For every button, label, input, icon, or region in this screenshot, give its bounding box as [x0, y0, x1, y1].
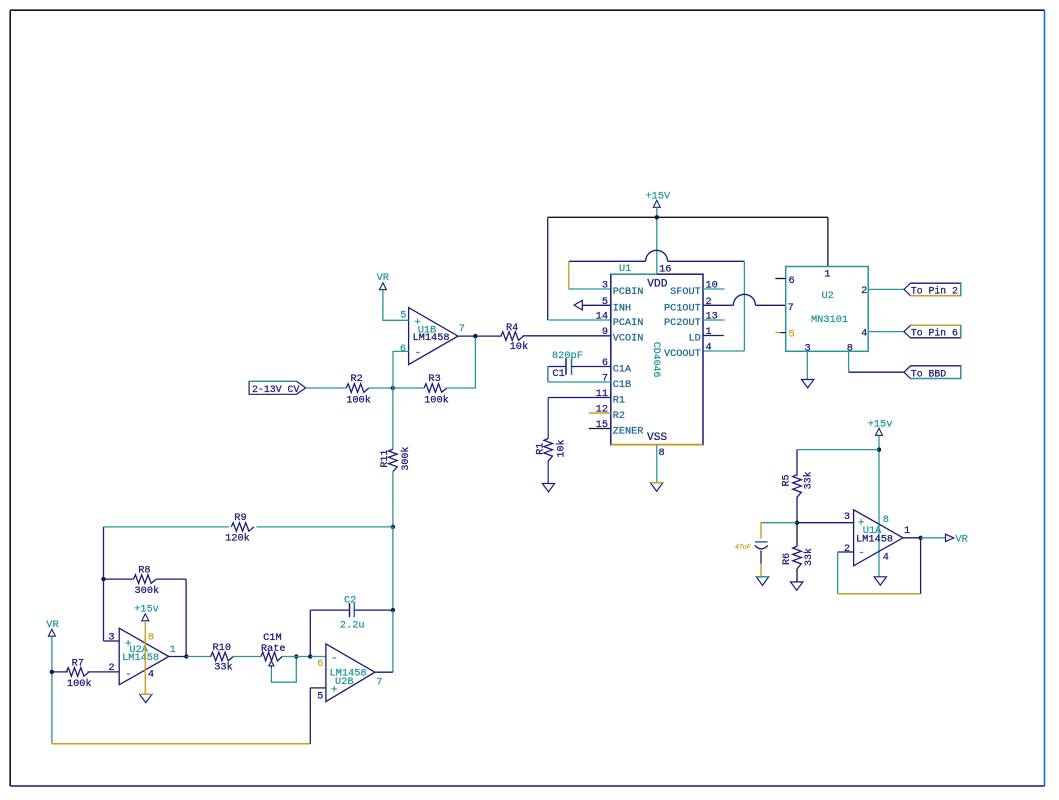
- U2A pin4 number: [148, 669, 154, 681]
- svg-text:VDD: VDD: [647, 278, 667, 290]
- wire R10 to C1M: [233, 656, 261, 658]
- VR out arrow: [946, 534, 954, 541]
- wire hop over +15V stem: [646, 250, 668, 261]
- node R8 left junction: [101, 577, 105, 581]
- wire PC1OUT right: [755, 304, 785, 306]
- svg-text:10k: 10k: [555, 439, 567, 457]
- U1 pin name PC1OUT: [664, 303, 701, 314]
- node C1M return: [294, 654, 298, 658]
- ground U1A pin4: [874, 577, 886, 585]
- op-amp U2A: [119, 628, 169, 685]
- svg-text:R11: R11: [380, 450, 391, 468]
- svg-text:+15V: +15V: [646, 191, 672, 203]
- wire PCAIN stub: [548, 319, 611, 321]
- label VSS: [647, 432, 667, 444]
- svg-text:16: 16: [659, 263, 671, 275]
- label R2 value 100k: [346, 395, 371, 407]
- label MN3101: [811, 314, 848, 326]
- wire rail to U2 pin1: [827, 217, 829, 266]
- U1 pin name PCAIN: [613, 318, 644, 329]
- svg-text:6: 6: [789, 275, 795, 287]
- U2 pin6 number: [789, 275, 795, 287]
- border frame top: [10, 9, 1044, 11]
- capacitor C1 plate right: [571, 358, 573, 375]
- wire PCBIN stub: [569, 288, 611, 290]
- svg-text:7: 7: [602, 373, 608, 385]
- capacitor 47uF curved plate: [755, 545, 768, 549]
- node C2 junction: [391, 608, 395, 612]
- U2 pin4 number: [861, 327, 867, 339]
- label U1B: [418, 325, 437, 337]
- capacitor 47uF top lead: [760, 523, 762, 539]
- resistor R1: [544, 439, 553, 462]
- label U1A: [863, 525, 882, 537]
- svg-text:-: -: [414, 345, 421, 359]
- wire R8 junction to pin3: [103, 579, 105, 641]
- wire C1 left lead: [548, 366, 566, 368]
- resistor R3: [424, 384, 447, 393]
- U1 pin 1 number: [706, 326, 712, 338]
- U1 pin 2 number: [706, 296, 712, 308]
- svg-text:5: 5: [317, 690, 323, 702]
- U1 pin name VCOOUT: [664, 349, 701, 360]
- U1 pin 5 number: [602, 296, 608, 308]
- wire U1A out: [921, 537, 946, 539]
- svg-text:47uF: 47uF: [735, 544, 751, 551]
- node R5 R6 junction: [795, 521, 799, 525]
- node U2A out: [184, 654, 188, 658]
- svg-text:3: 3: [844, 511, 850, 523]
- svg-text:C2: C2: [344, 595, 356, 607]
- wire R6 top: [796, 523, 798, 547]
- svg-text:SFOUT: SFOUT: [670, 287, 701, 298]
- U2 pin5 number: [789, 328, 795, 340]
- VR arrow left: [48, 629, 55, 636]
- capacitor 47uF top plate: [755, 541, 768, 543]
- node C2 left branch: [308, 654, 312, 658]
- svg-text:1: 1: [824, 268, 830, 280]
- U1 pin name LD: [688, 334, 700, 345]
- svg-text:33k: 33k: [214, 662, 233, 674]
- svg-text:VR: VR: [46, 619, 58, 631]
- svg-text:-: -: [331, 651, 338, 665]
- resistor R10: [211, 652, 234, 661]
- ic U2 body: [786, 267, 869, 352]
- wire C1M wiper return: [271, 657, 296, 683]
- U1A plus: [858, 517, 865, 529]
- svg-text:8: 8: [847, 342, 853, 354]
- op-amp U1A: [854, 510, 903, 566]
- svg-text:To BBD: To BBD: [911, 368, 946, 379]
- U2 pin3 number: [805, 342, 811, 354]
- power +15V arrow: [653, 200, 660, 207]
- U1A pin8 number: [883, 514, 889, 526]
- wire VCOOUT horizontal: [703, 350, 744, 352]
- U1 pin 3 number: [602, 280, 608, 292]
- svg-text:-: -: [125, 667, 132, 681]
- U2A pin3 number: [108, 632, 114, 644]
- svg-text:14: 14: [596, 311, 608, 323]
- wire R11 to R9: [392, 472, 394, 527]
- svg-text:PCAIN: PCAIN: [613, 318, 644, 329]
- label 820pF: [552, 350, 583, 362]
- U1 pin name INH: [613, 303, 631, 314]
- ic U1 body: [611, 274, 703, 445]
- U1 pin1 stub: [703, 335, 724, 337]
- U2B pin6 number: [317, 658, 323, 670]
- svg-text:300k: 300k: [400, 447, 412, 471]
- wire feedback horizontal right: [668, 260, 745, 262]
- wire gold bottom: [52, 743, 310, 745]
- svg-text:R4: R4: [506, 322, 518, 334]
- U1A pin1 number: [904, 525, 910, 537]
- svg-text:5: 5: [602, 296, 608, 308]
- wire R1 bottom: [547, 461, 549, 484]
- wire U2 pin8 vertical: [848, 351, 850, 372]
- wire R1 pin11: [548, 397, 611, 399]
- label C1M Rate: [261, 643, 286, 655]
- svg-text:4: 4: [861, 327, 867, 339]
- resistor R9: [231, 523, 254, 532]
- wire VR down: [51, 636, 53, 743]
- label R8: [138, 565, 150, 577]
- port 2-13V CV: [249, 381, 306, 395]
- power +15V label: [646, 191, 672, 203]
- pin 16 label: [659, 263, 671, 275]
- op-amp U1B: [409, 308, 458, 365]
- wire VR to pin5: [383, 290, 409, 321]
- label R3: [428, 373, 440, 385]
- svg-text:+15v: +15v: [134, 604, 159, 616]
- U1 pin 12 number: [596, 404, 608, 416]
- svg-text:VSS: VSS: [647, 432, 667, 444]
- potentiometer C1M: [261, 652, 282, 661]
- svg-text:8: 8: [148, 632, 154, 644]
- wire U2 pin8 horizontal: [849, 371, 904, 373]
- svg-text:Rate: Rate: [261, 643, 286, 655]
- U2 pin1 number: [824, 268, 830, 280]
- U1 pin 9 number: [602, 326, 608, 338]
- wire R6 bottom: [796, 569, 798, 582]
- svg-text:C1B: C1B: [613, 380, 631, 391]
- svg-text:ZENER: ZENER: [613, 427, 644, 438]
- capacitor 47uF bottom lead gold: [760, 564, 762, 577]
- U1 pin name VCOIN: [613, 334, 644, 345]
- U2 pin7 number: [788, 302, 794, 314]
- svg-text:R2: R2: [351, 373, 363, 385]
- wire C1 vertical: [547, 367, 549, 383]
- ground 47uF: [756, 577, 768, 585]
- wire pin6: [393, 351, 409, 388]
- svg-text:7: 7: [376, 677, 382, 689]
- label U2: [822, 290, 834, 302]
- wire R7 left: [52, 671, 68, 673]
- svg-text:6: 6: [400, 343, 406, 355]
- ground U2A: [140, 694, 152, 702]
- port To BBD: [904, 366, 961, 379]
- resistor R11: [389, 449, 398, 472]
- U2B pin5 number: [317, 690, 323, 702]
- label R9 value 120k: [225, 533, 250, 545]
- wire junction to R3: [393, 387, 424, 389]
- label C2: [344, 595, 356, 607]
- U2B output stub: [375, 671, 393, 673]
- op-amp U2B: [326, 644, 375, 702]
- U1 pin 6 number: [602, 357, 608, 369]
- label R5 value 33k: [802, 471, 814, 489]
- wire cap branch: [761, 522, 797, 524]
- svg-text:PC1OUT: PC1OUT: [664, 303, 701, 314]
- U2 pin2 number: [861, 285, 867, 297]
- svg-text:MN3101: MN3101: [811, 314, 848, 326]
- wire +15V rail: [548, 216, 828, 218]
- svg-text:100k: 100k: [67, 678, 92, 690]
- U1A pin4 number: [883, 552, 889, 564]
- svg-text:U2B: U2B: [335, 676, 354, 688]
- svg-text:LM1458: LM1458: [856, 534, 893, 546]
- resistor R7: [66, 668, 89, 677]
- svg-text:R10: R10: [213, 642, 232, 654]
- U2A pin2 number: [108, 662, 114, 674]
- svg-text:U1: U1: [619, 263, 631, 275]
- wire C1M to C2 node: [282, 656, 310, 658]
- wire C1B: [548, 381, 611, 383]
- U2B plus: [331, 685, 338, 697]
- border frame right: [1044, 10, 1046, 786]
- svg-text:LM1458: LM1458: [413, 332, 450, 344]
- U1 pin 13 number: [706, 311, 718, 323]
- wire VCOOUT vertical: [743, 261, 745, 351]
- svg-text:INH: INH: [613, 303, 631, 314]
- svg-text:300k: 300k: [135, 585, 160, 597]
- resistor R5: [793, 475, 802, 498]
- label U2B: [335, 676, 354, 688]
- wire R3 up corner: [447, 336, 476, 388]
- label +15v U1A: [868, 418, 893, 430]
- wire feedback horizontal left: [569, 260, 646, 262]
- wire PC1OUT left: [703, 304, 733, 306]
- wire U1 pin8: [656, 445, 658, 483]
- U1 pin name R2: [613, 411, 625, 422]
- label U2B LM1458: [330, 668, 367, 680]
- U2 pin6 stub: [775, 278, 785, 280]
- wire CV to R2: [306, 387, 347, 389]
- svg-text:7: 7: [788, 302, 794, 314]
- svg-text:R7: R7: [72, 658, 84, 670]
- label R5: [782, 474, 793, 486]
- svg-text:To Pin 6: To Pin 6: [911, 328, 958, 339]
- border frame bottom: [10, 785, 1044, 787]
- svg-text:8: 8: [883, 514, 889, 526]
- capacitor C2 plate right: [353, 603, 355, 617]
- svg-text:PC2OUT: PC2OUT: [664, 318, 701, 329]
- VR arrow U1B: [379, 283, 386, 290]
- wire +15v U1A down: [878, 436, 880, 577]
- wire out to R10: [186, 656, 211, 658]
- port To Pin 2: [904, 283, 961, 296]
- svg-text:120k: 120k: [225, 533, 250, 545]
- ground U2 pin3: [802, 380, 814, 388]
- U2B pin7 number: [376, 677, 382, 689]
- label R6: [782, 553, 793, 565]
- wire C2 up: [309, 610, 311, 656]
- resistor R8: [134, 575, 157, 584]
- U2B minus: [331, 651, 338, 665]
- label C1M: [263, 632, 282, 644]
- svg-text:2.2u: 2.2u: [340, 619, 365, 631]
- svg-text:+15v: +15v: [868, 418, 893, 430]
- label R7: [72, 658, 84, 670]
- U1 pin 7 number: [602, 373, 608, 385]
- svg-text:2: 2: [844, 543, 850, 555]
- U1B pin5 number: [400, 310, 406, 322]
- svg-text:100k: 100k: [346, 395, 371, 407]
- label C1: [552, 368, 564, 380]
- U1 pin name ZENER: [613, 427, 644, 438]
- svg-text:To Pin 2: To Pin 2: [911, 286, 958, 297]
- U1 pin name PC2OUT: [664, 318, 701, 329]
- port To Pin 6: [904, 325, 961, 338]
- label R10 value 33k: [214, 662, 233, 674]
- wire hop over VCOOUT vertical: [733, 294, 755, 305]
- svg-text:4: 4: [883, 552, 889, 564]
- label R4 value 10k: [510, 341, 529, 353]
- svg-text:R2: R2: [613, 411, 625, 422]
- svg-text:C1A: C1A: [613, 365, 632, 376]
- wire U2B pin5 stub: [310, 687, 326, 689]
- svg-text:R5: R5: [782, 474, 793, 486]
- svg-text:12: 12: [596, 404, 608, 416]
- wire C2 junction down: [392, 610, 394, 672]
- label VDD: [647, 278, 667, 290]
- capacitor C1 plate left: [565, 358, 567, 375]
- wire pin3 U1A: [797, 522, 854, 524]
- U1B minus: [414, 345, 421, 359]
- node junction +15V rail: [655, 215, 659, 219]
- svg-text:7: 7: [459, 323, 465, 335]
- svg-text:-: -: [858, 546, 865, 560]
- U2A plus: [125, 638, 132, 650]
- svg-text:R1: R1: [535, 443, 546, 455]
- INH arrow: [574, 300, 582, 310]
- ic U1 bottom edge gold: [611, 444, 703, 446]
- U2A pin8 number: [148, 632, 154, 644]
- U1 pin name PCBIN: [613, 287, 644, 298]
- U1A pin3 number: [844, 511, 850, 523]
- wire feedback gold drop: [568, 261, 570, 289]
- svg-text:13: 13: [706, 311, 718, 323]
- label R10: [213, 642, 232, 654]
- svg-text:VR: VR: [955, 534, 967, 546]
- wire R9 drop: [103, 527, 105, 579]
- C1M wiper arrow: [269, 661, 274, 668]
- label 47uF: [735, 544, 751, 551]
- label R6 value 33k: [803, 548, 815, 566]
- svg-text:VCOIN: VCOIN: [613, 334, 644, 345]
- label R9: [234, 512, 246, 524]
- svg-text:1: 1: [706, 326, 712, 338]
- svg-text:R3: R3: [428, 373, 440, 385]
- label R2: [351, 373, 363, 385]
- U1 pin15 stub: [589, 428, 611, 430]
- wire +15V stem: [656, 207, 658, 274]
- U1 pin 10 number: [706, 280, 718, 292]
- label U1B LM1458: [413, 332, 450, 344]
- U2 pin5 stub navy: [781, 332, 786, 334]
- U1A minus: [858, 546, 865, 560]
- svg-text:R9: R9: [234, 512, 246, 524]
- U1 pin name SFOUT: [670, 287, 701, 298]
- wire U1A pin2 stub: [838, 551, 854, 553]
- svg-text:5: 5: [789, 328, 795, 340]
- wire R7 right: [88, 671, 120, 673]
- label +15v U2A: [134, 604, 159, 616]
- U1B pin6 number: [400, 343, 406, 355]
- wire +15v gold through U2A: [144, 621, 146, 694]
- U1B output stub: [458, 335, 475, 337]
- svg-text:11: 11: [596, 388, 608, 400]
- U1 pin8 number: [659, 447, 665, 459]
- svg-text:2-13V CV: 2-13V CV: [252, 384, 299, 395]
- ground R1: [542, 484, 554, 492]
- resistor R4: [501, 332, 524, 341]
- node R9 junction: [391, 525, 395, 529]
- label R3 value 100k: [424, 395, 449, 407]
- +15v arrow U1A: [876, 428, 883, 435]
- border frame left: [9, 10, 11, 786]
- svg-text:2: 2: [861, 285, 867, 297]
- svg-text:CD4046: CD4046: [651, 342, 662, 378]
- svg-text:3: 3: [108, 632, 114, 644]
- wire U1A feedback left: [837, 552, 839, 594]
- label R1: [535, 443, 546, 455]
- wire R5 top horizontal: [797, 449, 879, 451]
- wire to U2B pin6: [310, 656, 326, 658]
- svg-text:4: 4: [148, 669, 154, 681]
- resistor R6: [793, 546, 802, 569]
- label R11 value 300k: [400, 447, 412, 471]
- wire R4 to VCOIN: [523, 335, 611, 337]
- wire R8 left: [104, 578, 134, 580]
- svg-text:100k: 100k: [424, 395, 449, 407]
- U1 pin10 stub: [703, 288, 725, 290]
- U1 pin12 stub gold: [589, 412, 611, 414]
- svg-text:4: 4: [706, 342, 712, 354]
- svg-text:1: 1: [904, 525, 910, 537]
- wire C2 left lead: [310, 609, 349, 611]
- node U1A out: [918, 536, 922, 540]
- label C2 value 2.2u: [340, 619, 365, 631]
- ground R6: [791, 582, 803, 590]
- resistor R2: [346, 384, 369, 393]
- label U1: [619, 263, 631, 275]
- wire R9 junction down: [392, 527, 394, 610]
- U1 pin name C1A: [613, 365, 632, 376]
- node U1B out: [473, 334, 477, 338]
- wire R5 bottom: [796, 496, 798, 522]
- svg-text:33k: 33k: [802, 471, 814, 489]
- label CD4046: [651, 342, 662, 378]
- svg-text:15: 15: [596, 419, 608, 431]
- wire R8 right drop: [185, 579, 187, 656]
- U1 pin 4 number: [706, 342, 712, 354]
- ground U1 pin8: [650, 483, 662, 491]
- svg-text:LD: LD: [688, 334, 700, 345]
- svg-text:10k: 10k: [510, 341, 529, 353]
- U1 pin 15 number: [596, 419, 608, 431]
- svg-text:LM1458: LM1458: [122, 652, 159, 664]
- U1A output stub: [903, 537, 921, 539]
